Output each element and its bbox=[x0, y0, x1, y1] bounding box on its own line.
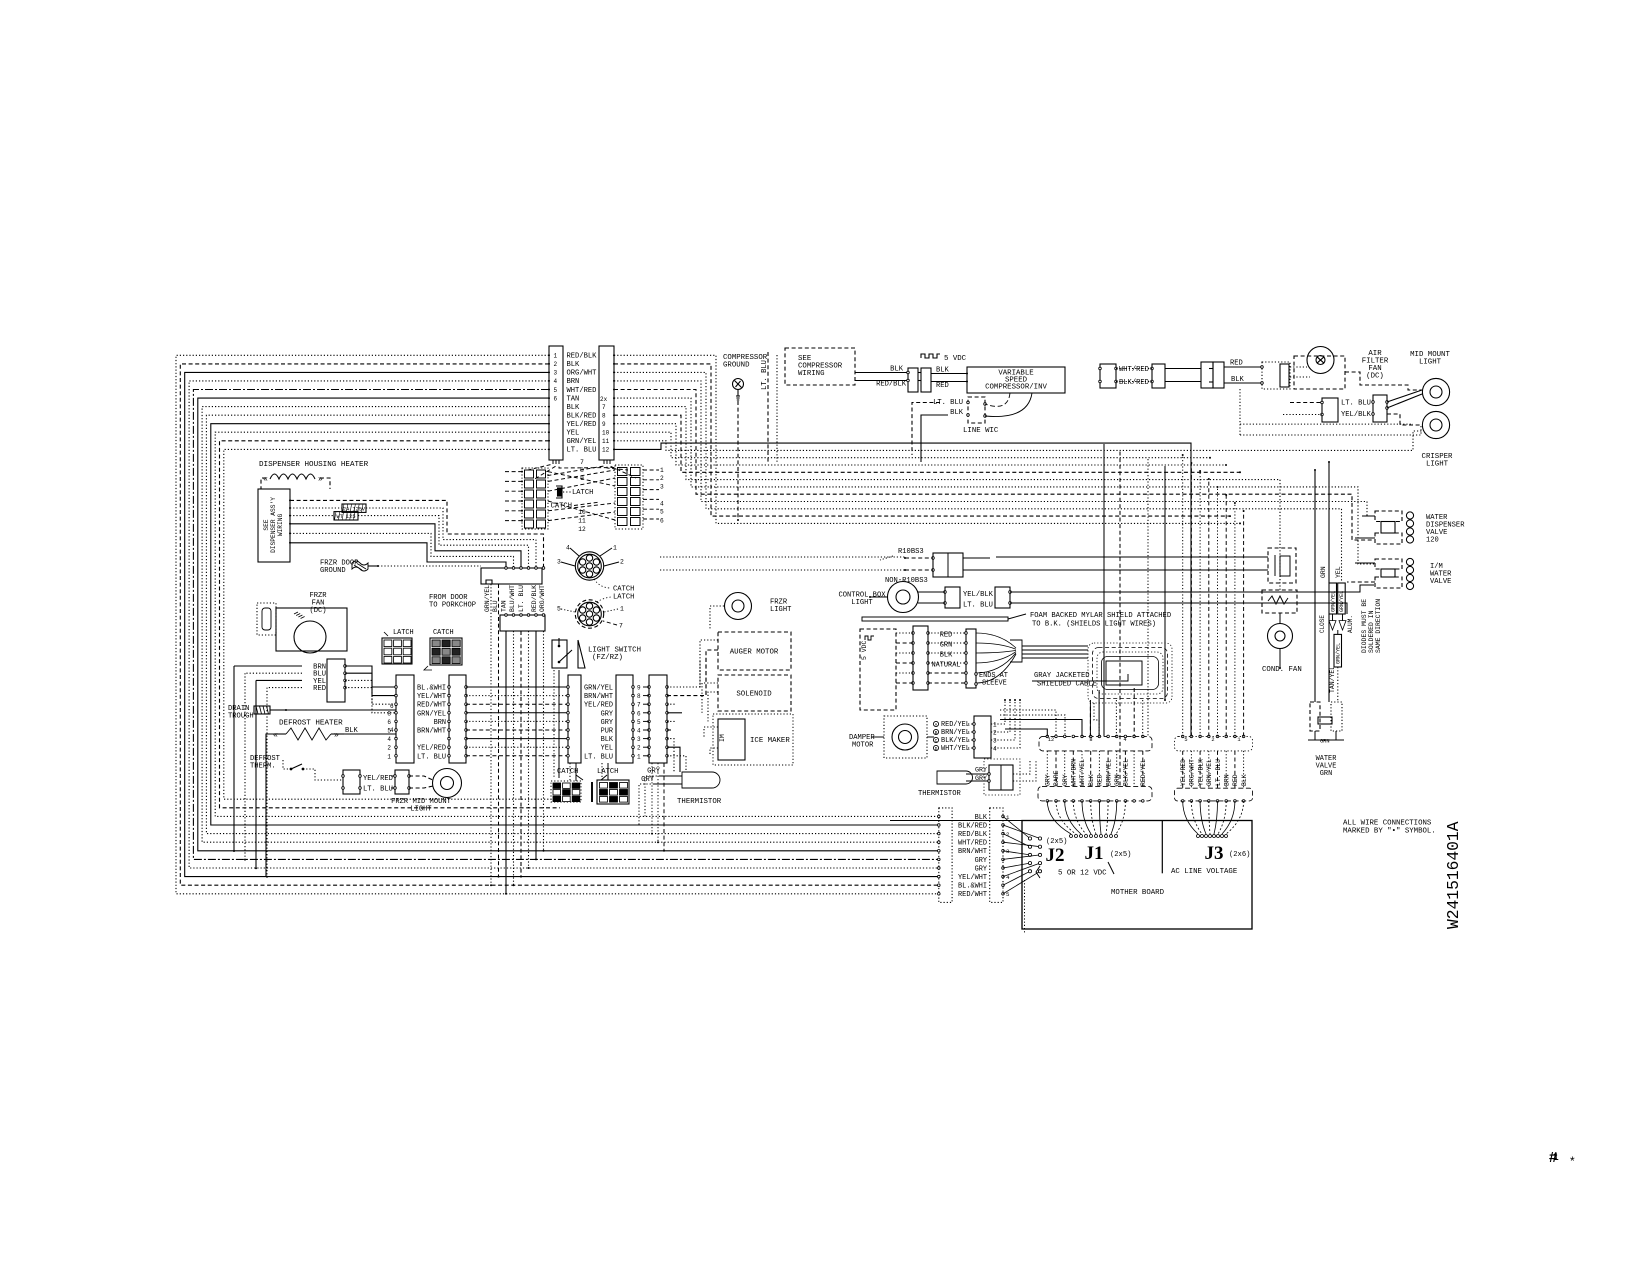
gray jacketed shielded cable coil bbox=[1022, 643, 1172, 736]
P1 pin numbers 7-12 bbox=[602, 404, 610, 454]
crisper light label bbox=[1422, 453, 1453, 469]
damper feed labels RED GRN BLK NATURAL bbox=[932, 632, 961, 670]
svg-text:GRY: GRY bbox=[1062, 774, 1069, 786]
svg-text:BLK: BLK bbox=[567, 361, 581, 369]
damper motor wire labels bbox=[933, 721, 970, 753]
frzr mid mount light label bbox=[391, 798, 452, 814]
wires: J3 upper row risers bbox=[1182, 454, 1245, 736]
wires: extra staircase risers left of door connector B bbox=[490, 584, 500, 886]
svg-text:LIGHT: LIGHT bbox=[1419, 359, 1442, 367]
svg-text:DIODES MUST BE: DIODES MUST BE bbox=[1361, 599, 1368, 653]
svg-text:YEL/RED: YEL/RED bbox=[567, 421, 597, 429]
svg-text:GRN/YEL: GRN/YEL bbox=[584, 685, 613, 693]
svg-text:BLK: BLK bbox=[950, 409, 964, 417]
J2 lead wire labels bbox=[958, 814, 988, 899]
cond fan motor circle bbox=[1268, 613, 1293, 669]
svg-text:GRY: GRY bbox=[601, 710, 614, 718]
connector P1 body (right half) bbox=[599, 346, 614, 460]
svg-text:ALUM.: ALUM. bbox=[1347, 615, 1354, 633]
control box light connector 2 bbox=[995, 587, 1011, 608]
svg-text:TAN: TAN bbox=[567, 395, 580, 403]
solenoid box bbox=[718, 675, 791, 711]
svg-text:4: 4 bbox=[993, 746, 997, 753]
svg-text:THERMISTOR: THERMISTOR bbox=[677, 798, 722, 806]
lower grid connector A bbox=[551, 781, 581, 802]
from door to porkchop label bbox=[429, 594, 476, 610]
J1 (2x5) annotation bbox=[1110, 851, 1131, 859]
svg-text:TO PORKCHOP: TO PORKCHOP bbox=[429, 602, 476, 610]
svg-text:BL.&WHI: BL.&WHI bbox=[417, 685, 446, 693]
svg-text:GRN: GRN bbox=[1320, 739, 1330, 745]
svg-text:RED/BLK: RED/BLK bbox=[876, 381, 907, 389]
catch label (lower grids) bbox=[557, 768, 583, 780]
svg-text:GRN/YEL: GRN/YEL bbox=[484, 585, 491, 612]
svg-text:LIGHT: LIGHT bbox=[410, 806, 432, 814]
svg-text:RED/YEL: RED/YEL bbox=[1140, 759, 1147, 786]
strip M pin numbers bbox=[637, 685, 641, 761]
svg-text:GRY: GRY bbox=[601, 719, 614, 727]
wires: J3 vertical links between rows bbox=[1183, 751, 1244, 788]
svg-text:5: 5 bbox=[554, 387, 558, 394]
J2 label bbox=[1046, 845, 1065, 866]
wires: crisscross between grid connectors bbox=[548, 470, 615, 521]
thermistor left capsule bbox=[639, 768, 720, 826]
svg-text:A: A bbox=[935, 722, 938, 728]
svg-text:CATCH: CATCH bbox=[551, 503, 572, 511]
ends at sleeve label bbox=[975, 672, 1008, 688]
J2 lead connector strip 1 bbox=[938, 808, 953, 903]
svg-text:YEL: YEL bbox=[601, 745, 613, 753]
svg-text:FOAM BACKED MYLAR SHIELD ATTAC: FOAM BACKED MYLAR SHIELD ATTACHED bbox=[1030, 612, 1171, 620]
J3 (2x6) annotation bbox=[1229, 851, 1250, 859]
svg-text:GROUND: GROUND bbox=[723, 362, 750, 370]
wire: RED/BLK to compressor connector bbox=[855, 381, 908, 389]
all wire connections note bbox=[1343, 820, 1436, 836]
svg-text:«: « bbox=[263, 475, 268, 484]
frzr fan motor bbox=[257, 603, 347, 653]
wires: J1 vertical links between rows bbox=[1047, 751, 1143, 787]
i/m water valve label bbox=[1430, 563, 1452, 586]
J1 lower connector row bbox=[1038, 786, 1152, 802]
svg-text:WIRING: WIRING bbox=[277, 514, 284, 537]
svg-text:YEL/RED: YEL/RED bbox=[584, 702, 613, 710]
J2 lead connector strip 2 bbox=[990, 808, 1010, 903]
see compressor wiring box bbox=[785, 348, 855, 385]
svg-text:11: 11 bbox=[578, 518, 586, 525]
svg-text:RED/BLK: RED/BLK bbox=[958, 831, 988, 839]
svg-text:CATCH: CATCH bbox=[613, 586, 634, 594]
wires: frzr fan leads to risers bbox=[233, 666, 302, 878]
svg-text:2: 2 bbox=[1211, 737, 1214, 743]
svg-text:(2x6): (2x6) bbox=[1229, 851, 1250, 859]
svg-text:5 VDC: 5 VDC bbox=[944, 355, 967, 363]
svg-text:LATCH: LATCH bbox=[613, 594, 634, 602]
svg-text:9: 9 bbox=[637, 685, 641, 692]
light connector F bbox=[1372, 395, 1389, 422]
dispenser wires with fuses bbox=[289, 499, 544, 568]
R10BS3 connector bbox=[904, 553, 996, 577]
latch grid connector C bbox=[382, 629, 414, 664]
J2 (2x5) annotation bbox=[1046, 838, 1067, 846]
svg-text:5: 5 bbox=[557, 606, 561, 613]
svg-text:C: C bbox=[935, 738, 938, 744]
svg-text:ORG/WHT: ORG/WHT bbox=[539, 585, 546, 612]
strip L pin numbers bbox=[387, 710, 391, 760]
frzr mid mount connector 2 bbox=[391, 770, 410, 794]
svg-text:GRY: GRY bbox=[975, 767, 987, 775]
svg-text:5 OR 12 VDC: 5 OR 12 VDC bbox=[1058, 870, 1107, 878]
drain trough label bbox=[228, 705, 254, 721]
svg-text:12: 12 bbox=[578, 526, 586, 533]
svg-text:YEL/WHT: YEL/WHT bbox=[417, 693, 446, 701]
wire band: 12 wires from P1 right side across middle of page bbox=[614, 355, 1422, 736]
svg-text:6: 6 bbox=[637, 710, 641, 717]
frzr mid mount connector bbox=[342, 770, 393, 794]
water valve grn connector boxes bbox=[1308, 702, 1344, 745]
svg-text:BLK: BLK bbox=[567, 404, 581, 412]
AC LINE VOLTAGE label bbox=[1171, 868, 1238, 876]
svg-text:7: 7 bbox=[580, 459, 584, 466]
svg-text:RED: RED bbox=[1232, 774, 1239, 786]
svg-text:BLK/RED: BLK/RED bbox=[958, 822, 987, 830]
svg-text:BRN/YEL: BRN/YEL bbox=[1105, 759, 1112, 786]
wires: J1 upper row feeds from left bbox=[1000, 688, 1143, 736]
svg-text:BLU: BLU bbox=[492, 600, 499, 612]
choke strip pair bbox=[1319, 583, 1354, 633]
svg-text:BLK: BLK bbox=[936, 367, 950, 375]
wires: P1 bottoms fan to grid connectors bbox=[528, 460, 636, 480]
svg-text:BRN/WHT: BRN/WHT bbox=[958, 848, 987, 856]
svg-text:GRY: GRY bbox=[647, 768, 661, 776]
svg-text:BRN: BRN bbox=[434, 719, 446, 727]
grid R pin numbers bbox=[660, 467, 664, 525]
wires: round connector area to R10BS3 bbox=[660, 557, 905, 570]
svg-text:»: » bbox=[318, 475, 323, 484]
svg-text:BLK: BLK bbox=[1088, 774, 1095, 786]
svg-text:BLK: BLK bbox=[890, 366, 904, 374]
svg-text:LIGHT: LIGHT bbox=[851, 599, 873, 607]
wires: strip M drops to lower grids bbox=[570, 763, 608, 781]
damper motor label bbox=[849, 734, 875, 750]
svg-text:YEL/RED: YEL/RED bbox=[363, 775, 393, 783]
svg-text:WHT/RED: WHT/RED bbox=[1119, 366, 1149, 374]
water dispenser valve label bbox=[1426, 514, 1465, 545]
door connector B (horizontal) bbox=[500, 614, 545, 631]
svg-text:8: 8 bbox=[1089, 737, 1092, 743]
svg-text:YEL/WHT: YEL/WHT bbox=[958, 874, 987, 882]
round connector 2 (latch) bbox=[575, 600, 603, 628]
svg-text:DISPENSER HOUSING HEATER: DISPENSER HOUSING HEATER bbox=[259, 461, 369, 469]
air filter fan label bbox=[1362, 350, 1389, 381]
dispenser assembly box bbox=[258, 489, 290, 562]
svg-text:THERM.: THERM. bbox=[250, 763, 276, 771]
svg-text:10: 10 bbox=[602, 430, 610, 437]
water valve grn label bbox=[1316, 755, 1337, 778]
control box light connector 1 bbox=[918, 587, 994, 610]
svg-text:GRN/YEL: GRN/YEL bbox=[1331, 591, 1337, 612]
lower grid connector B bbox=[592, 780, 629, 804]
svg-text:CATCH: CATCH bbox=[557, 768, 578, 776]
svg-text:7: 7 bbox=[619, 623, 623, 630]
svg-text:1: 1 bbox=[620, 606, 624, 613]
svg-text:1: 1 bbox=[1237, 737, 1240, 743]
defrost therm label bbox=[250, 755, 281, 771]
svg-text:DISPENSER ASS'Y: DISPENSER ASS'Y bbox=[270, 497, 277, 553]
svg-text:NATURAL: NATURAL bbox=[932, 662, 961, 670]
svg-text:SOLDERED IN: SOLDERED IN bbox=[1368, 610, 1375, 653]
svg-text:R10BS3: R10BS3 bbox=[898, 548, 924, 556]
svg-text:8: 8 bbox=[387, 710, 391, 717]
svg-text:COMPRESSOR/INV: COMPRESSOR/INV bbox=[985, 384, 1047, 392]
svg-text:WHT/BRN: WHT/BRN bbox=[1071, 759, 1078, 786]
wires: leads into connector E bbox=[1283, 403, 1322, 415]
svg-text:GRN/YEL: GRN/YEL bbox=[1339, 591, 1345, 612]
frzr light donut bbox=[710, 593, 752, 631]
strip M labels bbox=[584, 685, 614, 762]
svg-text:7: 7 bbox=[637, 702, 641, 709]
svg-text:BLK/YEL: BLK/YEL bbox=[1123, 759, 1130, 786]
wire: extra verticals from band to J1/mother board bbox=[1104, 444, 1166, 786]
mid mount light bulb (donut) bbox=[1422, 378, 1449, 405]
svg-text:(2x5): (2x5) bbox=[1110, 851, 1131, 859]
svg-text:1: 1 bbox=[660, 467, 664, 474]
foam backed mylar shield bar bbox=[862, 612, 1171, 629]
svg-text:LT. BLU: LT. BLU bbox=[363, 786, 393, 794]
svg-text:RED: RED bbox=[313, 685, 326, 693]
wire: BLK compressor to inverter bbox=[931, 367, 968, 375]
wires: connector F to mid mount light bbox=[1345, 372, 1422, 425]
svg-text:RED/BLK: RED/BLK bbox=[567, 353, 598, 361]
svg-text:BLK: BLK bbox=[1241, 774, 1248, 786]
svg-text:TO B.K. (SHIELDS LIGHT WIRES): TO B.K. (SHIELDS LIGHT WIRES) bbox=[1032, 621, 1156, 629]
svg-text:GRAY JACKETED: GRAY JACKETED bbox=[1034, 672, 1090, 680]
svg-text:TAN/YEL: TAN/YEL bbox=[1329, 666, 1336, 693]
auger motor box bbox=[718, 632, 791, 670]
door connector A (horizontal) bbox=[481, 567, 545, 584]
svg-text:RED: RED bbox=[1097, 774, 1104, 786]
catch label (round connector 1) bbox=[594, 579, 634, 594]
svg-text:3: 3 bbox=[554, 370, 558, 377]
svg-text:BLK: BLK bbox=[601, 736, 614, 744]
svg-text:6: 6 bbox=[554, 395, 558, 402]
R10BS3 termination box bbox=[996, 548, 1296, 583]
svg-text:LT. BLU: LT. BLU bbox=[567, 447, 597, 455]
svg-text:BLK/RED: BLK/RED bbox=[567, 413, 597, 421]
svg-text:LT. BLU: LT. BLU bbox=[963, 602, 993, 610]
wires: strip L2 to strip M1 bbox=[466, 687, 568, 756]
svg-text:8: 8 bbox=[602, 413, 606, 420]
svg-text:YEL/RED: YEL/RED bbox=[417, 745, 446, 753]
svg-text:SOLENOID: SOLENOID bbox=[736, 691, 772, 699]
damper feed strip bbox=[896, 626, 929, 690]
latch label (lower grids) bbox=[597, 768, 618, 780]
svg-text:BRN/YEL: BRN/YEL bbox=[941, 729, 970, 737]
grid connector L (2x6) bbox=[505, 468, 548, 529]
mother board box bbox=[1022, 821, 1252, 930]
svg-text:9: 9 bbox=[602, 421, 606, 428]
svg-text:(FZ/RZ): (FZ/RZ) bbox=[592, 654, 623, 662]
wire: compressor ground dashed drop bbox=[737, 401, 739, 521]
lower choke strip bbox=[1329, 630, 1342, 702]
svg-text:RED/WHT: RED/WHT bbox=[417, 702, 446, 710]
wires: control box light to i/m water valve bbox=[1010, 585, 1374, 614]
svg-text:PUR: PUR bbox=[601, 728, 613, 736]
svg-text:RED/BLK: RED/BLK bbox=[531, 585, 538, 612]
frzr light label bbox=[770, 599, 792, 615]
svg-text:SHIELDED CABLE: SHIELDED CABLE bbox=[1037, 681, 1097, 689]
svg-text:IM: IM bbox=[719, 734, 726, 742]
connector strip M2 bbox=[616, 675, 634, 763]
light connector E (LT. BLU / YEL/BLK) bbox=[1321, 398, 1372, 422]
svg-text:BLK: BLK bbox=[975, 814, 988, 822]
svg-text:THERMISTOR: THERMISTOR bbox=[918, 790, 961, 798]
svg-text:YEL/BLK: YEL/BLK bbox=[963, 591, 994, 599]
control box light donut bbox=[869, 582, 919, 613]
wire: line wic leads left and down bbox=[912, 403, 948, 463]
svg-text:J3: J3 bbox=[1205, 843, 1224, 864]
svg-text:LATCH: LATCH bbox=[572, 489, 593, 497]
svg-text:AUGER MOTOR: AUGER MOTOR bbox=[730, 649, 779, 657]
svg-text:ICE MAKER: ICE MAKER bbox=[750, 737, 790, 745]
svg-text:LT. BLU: LT. BLU bbox=[417, 753, 446, 761]
svg-text:W241516401A: W241516401A bbox=[1444, 821, 1463, 929]
ground screw symbol bbox=[733, 379, 744, 401]
svg-text:SEE: SEE bbox=[263, 519, 270, 530]
svg-text:GRN/YEL: GRN/YEL bbox=[567, 438, 597, 446]
J1 upper row rotated labels bbox=[1045, 759, 1148, 786]
round connector 1 pin numbers and leaders bbox=[557, 545, 624, 567]
gray jacketed shielded cable label bbox=[1032, 672, 1128, 689]
thermistor left label bbox=[677, 798, 722, 806]
svg-text:B: B bbox=[935, 730, 938, 736]
frzr fan lead labels BRN BLU YEL RED bbox=[313, 664, 326, 694]
svg-text:3: 3 bbox=[557, 559, 561, 566]
svg-text:4: 4 bbox=[387, 736, 391, 743]
catch label (upper grids) bbox=[551, 502, 600, 511]
svg-text:MOTHER BOARD: MOTHER BOARD bbox=[1111, 889, 1165, 897]
svg-text:2: 2 bbox=[554, 361, 558, 368]
svg-text:4: 4 bbox=[1123, 737, 1126, 743]
svg-text:120: 120 bbox=[1426, 537, 1439, 545]
light switch symbol bbox=[552, 638, 585, 668]
NON-R10BS3 label bbox=[885, 577, 928, 585]
svg-text:BLK/YEL: BLK/YEL bbox=[941, 737, 970, 745]
top right chain connector C pair bbox=[1201, 362, 1224, 388]
svg-text:ORG/WHT: ORG/WHT bbox=[567, 370, 598, 378]
svg-text:BARE: BARE bbox=[1053, 770, 1060, 786]
damper feed strip 2 bbox=[928, 629, 976, 688]
svg-text:RED: RED bbox=[936, 382, 949, 390]
svg-text:BRN/WHT: BRN/WHT bbox=[584, 693, 613, 701]
svg-text:7: 7 bbox=[602, 404, 606, 411]
dispenser heater coil symbol bbox=[261, 474, 330, 489]
svg-text:1: 1 bbox=[613, 545, 617, 552]
wires: auger/solenoid leads left bbox=[700, 640, 718, 756]
svg-text:3: 3 bbox=[993, 738, 997, 745]
svg-text:BRN: BRN bbox=[567, 378, 580, 386]
svg-text:(DC): (DC) bbox=[1366, 373, 1384, 381]
connector strip L2 bbox=[448, 675, 468, 763]
svg-text:3: 3 bbox=[637, 736, 641, 743]
svg-text:GRN: GRN bbox=[1320, 770, 1332, 778]
svg-text:YEL/RED: YEL/RED bbox=[1180, 759, 1187, 786]
svg-text:2: 2 bbox=[387, 745, 391, 752]
cond fan box bbox=[1262, 590, 1297, 613]
wires: damper connector up to J1 row bbox=[991, 699, 1021, 748]
svg-text:2: 2 bbox=[660, 475, 664, 482]
wires: strip R bottom risers to bundle bbox=[651, 763, 665, 852]
drain trough heater fuse bbox=[254, 706, 287, 714]
frzr mid mount light donut bbox=[409, 769, 462, 798]
svg-text:5: 5 bbox=[1006, 891, 1010, 898]
svg-text:1: 1 bbox=[637, 753, 641, 760]
thermistor right label bbox=[918, 790, 961, 798]
latch bracket symbol between grids bbox=[556, 486, 562, 498]
light switch label bbox=[588, 647, 641, 663]
svg-text:LIGHT: LIGHT bbox=[770, 606, 792, 614]
LT. BLU rotated label at compressor bbox=[761, 360, 769, 390]
svg-text:DEFROST HEATER: DEFROST HEATER bbox=[279, 720, 343, 728]
svg-text:6: 6 bbox=[387, 719, 391, 726]
svg-text:2: 2 bbox=[637, 745, 641, 752]
cond fan label bbox=[1262, 666, 1302, 674]
svg-text:LT. BLU: LT. BLU bbox=[584, 753, 613, 761]
svg-text:GRY: GRY bbox=[975, 865, 988, 873]
wires: chain A-B bbox=[1116, 369, 1201, 382]
round connector 1 (catch) bbox=[575, 552, 603, 580]
connector P1 body (left half) bbox=[549, 346, 563, 460]
catch grid connector D (hatched) bbox=[424, 629, 462, 670]
frzr fan label bbox=[309, 592, 327, 615]
control box light label bbox=[838, 592, 886, 608]
svg-text:YEL/BLK: YEL/BLK bbox=[1341, 411, 1372, 419]
svg-text:«: « bbox=[273, 731, 278, 740]
wires: strip R fan out right bbox=[667, 656, 706, 772]
svg-text:ORG/WHT: ORG/WHT bbox=[1189, 759, 1196, 786]
svg-text:(2x5): (2x5) bbox=[1046, 838, 1067, 846]
mother board bottom dotted riser bbox=[1024, 880, 1026, 934]
svg-text:VALVE: VALVE bbox=[1430, 578, 1451, 586]
svg-text:2: 2 bbox=[620, 559, 624, 566]
svg-text:GROUND: GROUND bbox=[320, 567, 346, 575]
door connector A rotated labels bbox=[484, 585, 546, 612]
GRN YEL rotated labels above chokes bbox=[1320, 566, 1342, 578]
ice maker box bbox=[713, 714, 793, 765]
damper motor connector bbox=[968, 716, 997, 758]
svg-text:GRY: GRY bbox=[975, 857, 988, 865]
P1 pins bbox=[548, 354, 615, 450]
svg-text:BLK/RED: BLK/RED bbox=[1119, 379, 1149, 387]
strip L labels bbox=[417, 685, 446, 762]
dispenser housing heater label bbox=[259, 461, 369, 469]
compressor ground label bbox=[723, 354, 768, 370]
svg-text:BRN: BRN bbox=[1224, 774, 1231, 786]
svg-text:4: 4 bbox=[637, 728, 641, 735]
wires: dotted feeds to crisper light donut bbox=[1240, 389, 1421, 435]
wire harness: 12 loop wires from P1 around left and bottom to mother board J2 leads bbox=[176, 355, 938, 894]
P1 pin numbers 1-6 bbox=[554, 353, 558, 403]
svg-text:2: 2 bbox=[993, 730, 997, 737]
i/m water valve coil boxes bbox=[1347, 558, 1414, 589]
top right chain connector D bbox=[1261, 362, 1290, 389]
MOTHER BOARD label bbox=[1111, 889, 1165, 897]
round connector 2 pin numbers bbox=[557, 606, 624, 630]
variable speed compressor/inverter box bbox=[967, 367, 1065, 393]
svg-text:WHT/YEL: WHT/YEL bbox=[1079, 759, 1086, 786]
wires: light switch drops bbox=[554, 670, 559, 778]
5 VDC pulse symbol bbox=[921, 354, 967, 363]
svg-text:COND. FAN: COND. FAN bbox=[1262, 666, 1302, 674]
